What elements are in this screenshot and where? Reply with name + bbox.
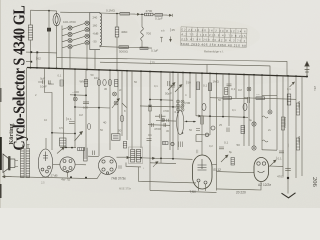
- wire stub y135: [196, 134, 210, 136]
- resistor R15: [123, 142, 126, 149]
- variable capacitor C6 (arrow): [168, 83, 175, 91]
- tube V2 (AF7) envelope: [38, 149, 52, 177]
- node dot: [71, 147, 73, 149]
- wire V2 top: [45, 138, 47, 149]
- node dot: [160, 158, 162, 160]
- svg-text:10n: 10n: [94, 76, 99, 80]
- svg-text:⎢50: ⎢50: [186, 81, 191, 85]
- capacitor C14: [227, 128, 229, 133]
- node dot: [74, 94, 76, 96]
- wire drop x142: [141, 14, 143, 27]
- node dot: [149, 99, 151, 101]
- wire T1 tops: [23, 145, 30, 149]
- wire rail x63 lower: [63, 69, 65, 148]
- svg-text:4700: 4700: [163, 109, 169, 113]
- switch contact bank 2 row c: [176, 108, 184, 111]
- resistor R6: [84, 80, 87, 87]
- wire rail x95: [94, 50, 96, 70]
- resistor R7: [97, 79, 100, 85]
- capacitor C20: [219, 147, 224, 149]
- arrow pointer down: [170, 37, 172, 42]
- wire rail x190: [189, 73, 191, 98]
- svg-text:160: 160: [93, 24, 98, 28]
- wire rail x86 lower: [85, 70, 87, 148]
- lamp E6: [171, 142, 174, 145]
- capacitor C7: [171, 85, 176, 87]
- pot P1 (oval): [202, 103, 206, 110]
- resistor R2: [145, 13, 154, 16]
- svg-text:MSE 375e: MSE 375e: [119, 187, 132, 191]
- svg-text:27dB: 27dB: [51, 174, 58, 178]
- wire line y116: [196, 116, 248, 118]
- mains block frame: [262, 95, 277, 97]
- tube V6 electrodes: [257, 162, 266, 173]
- wire rail x49: [48, 52, 50, 68]
- svg-text:8μ: 8μ: [229, 150, 232, 154]
- IF can outline: [129, 147, 143, 164]
- wire tube cathode down: [56, 26, 58, 58]
- svg-text:100-4700: 100-4700: [63, 20, 76, 24]
- resistor R18: [163, 142, 169, 145]
- capacitor C4: [108, 79, 111, 85]
- lamp E3: [268, 110, 272, 114]
- svg-text:2n: 2n: [119, 88, 122, 92]
- wire K1-K5: [72, 23, 85, 27]
- oval component right: [243, 103, 247, 110]
- wire tube to pack top: [60, 11, 90, 13]
- lamp E2: [205, 133, 209, 137]
- choke T2 winding: [84, 148, 88, 161]
- scan edge mark upper: [0, 88, 2, 102]
- wire rail x173: [172, 72, 174, 159]
- wire K4-K8: [72, 43, 85, 46]
- node dot avc: [141, 14, 143, 16]
- svg-text:206: 206: [311, 177, 318, 188]
- wire y172 to rectifier: [217, 172, 255, 173]
- table row lines: [181, 31, 247, 42]
- svg-text:30: 30: [166, 129, 169, 133]
- resistor R19: [87, 124, 90, 130]
- svg-text:5000Ω: 5000Ω: [119, 49, 129, 53]
- wire avc 4: [153, 14, 155, 16]
- wire avc 3: [140, 13, 145, 15]
- wire y157 to EL12: [130, 158, 193, 160]
- svg-text:0,1: 0,1: [203, 84, 208, 88]
- wire V6 right: [269, 165, 284, 167]
- diag arrow right end: [290, 82, 295, 87]
- wire rail x122: [121, 71, 123, 136]
- switch arm d: [62, 46, 67, 47]
- svg-text:40: 40: [103, 121, 107, 125]
- capacitor C17: [69, 122, 75, 124]
- capacitor C24 on ground rail: [285, 168, 291, 170]
- capacitor C12: [164, 123, 166, 127]
- wire rail x262: [261, 75, 263, 150]
- svg-text:24v: 24v: [313, 86, 317, 91]
- switch contact K3: [68, 39, 72, 43]
- node dot rail: [70, 176, 87, 178]
- wire rail x70: [69, 49, 71, 69]
- trimmer capacitor C1: [47, 28, 50, 31]
- wire line B (inner rail): [100, 62, 270, 75]
- node dot: [160, 99, 162, 101]
- svg-text:⎢0,1: ⎢0,1: [66, 117, 72, 121]
- wire rail x44: [45, 68, 53, 150]
- switch contact K2: [68, 32, 72, 36]
- wire V4 right with arrow: [117, 156, 130, 158]
- resistor R10: [208, 83, 211, 91]
- svg-text:4700: 4700: [277, 175, 284, 179]
- wire rail x254: [253, 75, 255, 146]
- svg-text:⎢0,1: ⎢0,1: [276, 157, 282, 161]
- svg-text:50: 50: [118, 129, 122, 133]
- resistor R17: [200, 116, 203, 124]
- svg-text:0,5: 0,5: [59, 126, 63, 130]
- wire elbow x196: [196, 135, 202, 142]
- wire rail x302: [301, 76, 303, 176]
- capacitor C18: [119, 165, 121, 169]
- wire V4 down-left: [97, 173, 101, 179]
- wire stub y99: [150, 99, 173, 102]
- wire rail x296: [295, 76, 297, 178]
- svg-text:5000: 5000: [297, 136, 301, 143]
- IF transformer T3 winding 2: [136, 150, 140, 163]
- wire rail x283: [282, 76, 284, 176]
- capacitor C23: [279, 151, 284, 153]
- resistor R11: [241, 126, 245, 134]
- wire rail x110: [109, 70, 111, 150]
- wire heater corner x150: [149, 163, 151, 190]
- oscillator switch contact K10: [113, 92, 117, 96]
- wire pack bottom line: [100, 47, 152, 49]
- speaker LS1 magnet: [9, 157, 15, 171]
- svg-text:700: 700: [146, 32, 151, 36]
- svg-text:0μF: 0μF: [40, 77, 45, 81]
- svg-text:Reihenfolge v. l.: Reihenfolge v. l.: [204, 49, 224, 53]
- svg-text:50: 50: [100, 128, 103, 132]
- svg-text:50: 50: [189, 128, 192, 132]
- small comp rail150: [149, 105, 152, 111]
- resistor R23 on pack line: [140, 47, 148, 49]
- wire rail x37: [36, 52, 38, 68]
- node dot: [74, 106, 76, 108]
- wire rail x244: [243, 75, 245, 147]
- wire line y106 mid: [140, 106, 184, 107]
- lamp on rail249: [247, 87, 251, 91]
- wire rail x62: [61, 48, 63, 69]
- switch arm b: [62, 34, 67, 36]
- IF box B1: [112, 134, 121, 140]
- svg-text:4W 7Ω: 4W 7Ω: [61, 178, 71, 182]
- svg-text:30: 30: [104, 87, 108, 91]
- wire rail x202: [201, 73, 203, 155]
- wire rail x170: [169, 72, 171, 150]
- scan edge line left: [0, 0, 2, 208]
- wire rail x210: [209, 73, 211, 135]
- wire V6 bottom: [217, 182, 262, 191]
- node dot: [74, 133, 76, 135]
- svg-text:0,1: 0,1: [154, 84, 158, 88]
- wire avc 5: [163, 14, 168, 16]
- paper noise texture: [0, 0, 1, 1]
- node dot: [65, 147, 67, 149]
- svg-text:0,1: 0,1: [231, 87, 236, 91]
- band switch S1 arm rail: [61, 26, 63, 48]
- pilot lamp E4: [252, 122, 256, 126]
- wire rail x141: [140, 71, 142, 148]
- capacitor C11: [152, 123, 154, 127]
- wire into V4: [88, 155, 99, 157]
- coil L1 (antenna choke): [28, 25, 32, 40]
- svg-text:0,1μF: 0,1μF: [155, 17, 163, 21]
- svg-text:0,1: 0,1: [287, 87, 291, 91]
- node dot: [243, 116, 245, 118]
- node dot avc2: [116, 13, 118, 15]
- main HT bus: [27, 68, 307, 77]
- svg-text:4700: 4700: [146, 9, 153, 13]
- tube V4 socket circle: [99, 157, 117, 175]
- small box component: [60, 80, 63, 86]
- table frame: [180, 27, 247, 48]
- switch contact bank 2 row b: [176, 104, 184, 107]
- coil pack L2 bumps: [100, 13, 102, 48]
- switch contact K8: [85, 41, 89, 45]
- table column lines: [186, 27, 241, 43]
- switch contact K9: [161, 118, 165, 122]
- wire rail x117 upper: [116, 14, 118, 28]
- svg-text:0,1: 0,1: [58, 74, 62, 78]
- coil pack L2 body: [90, 13, 100, 50]
- node dot: [209, 115, 211, 117]
- capacitor C27: [179, 142, 183, 148]
- svg-text:50: 50: [218, 98, 221, 102]
- wire T1 bottoms: [23, 176, 29, 178]
- svg-text:⎢25: ⎢25: [150, 61, 155, 65]
- switch arm a: [62, 28, 67, 30]
- node pin: [177, 112, 179, 114]
- variable arrow volume: [57, 147, 65, 154]
- capacitor C16: [93, 151, 95, 156]
- resistor R21: [296, 103, 299, 115]
- tube V3 socket circle: [60, 157, 75, 172]
- svg-text:AZ 12/Ze: AZ 12/Ze: [258, 183, 271, 187]
- ground symbol: [282, 193, 296, 198]
- wire y133 stub: [52, 132, 75, 135]
- capacitor C13: [120, 115, 124, 122]
- switch wiper arrow: [112, 99, 120, 109]
- arrow on y116: [197, 115, 201, 117]
- svg-text:30Ω: 30Ω: [48, 82, 54, 86]
- arrow on y157: [152, 157, 155, 159]
- tube V3 pins: [63, 160, 72, 173]
- wire avc 2: [130, 13, 136, 15]
- switch contact K4: [68, 45, 72, 49]
- switch contact K5: [85, 21, 89, 25]
- arrow tap A2: [167, 14, 172, 17]
- diag tap: [153, 162, 158, 168]
- wire rail x277: [276, 76, 278, 151]
- resistor R22: [296, 138, 299, 150]
- wire stub y147: [60, 146, 76, 148]
- svg-text:0,1: 0,1: [224, 141, 229, 145]
- node dot: [149, 105, 151, 107]
- capacitor C28: [48, 80, 50, 84]
- oscillator switch contact K11: [114, 101, 118, 105]
- wire V3 bottom stub: [67, 172, 69, 177]
- resistor R9: [196, 82, 199, 90]
- node J1: [48, 10, 50, 12]
- arrow bottom left: [3, 176, 12, 178]
- node dot: [98, 107, 100, 109]
- wire stub y95: [70, 94, 87, 97]
- node dot: [172, 106, 174, 108]
- switch arm c: [62, 40, 67, 42]
- variable arrow C21: [221, 155, 228, 162]
- svg-text:-6dB: -6dB: [93, 32, 99, 36]
- wire bottom rail left: [4, 177, 97, 179]
- resistor R3: [155, 14, 163, 17]
- capacitor C29: [168, 81, 170, 86]
- svg-text:⎢25: ⎢25: [170, 28, 175, 32]
- capacitor C5: [83, 102, 89, 104]
- switch contact K7: [85, 34, 89, 38]
- node dot: [30, 61, 32, 63]
- heater winding sign 2: [262, 140, 268, 142]
- svg-text:WN: WN: [80, 80, 85, 84]
- wire tube to rail: [56, 11, 58, 14]
- node dot bus end: [306, 76, 308, 78]
- wire heater line: [150, 190, 217, 192]
- wire rail x183: [182, 73, 184, 107]
- tube V4 pins: [102, 160, 113, 174]
- wire K3-K7: [72, 36, 85, 40]
- wire rail x31: [30, 52, 32, 67]
- variable arrow C22: [270, 160, 277, 167]
- resistor R12: [256, 97, 265, 100]
- wire rail x236: [235, 74, 237, 98]
- arrow tap A1: [135, 13, 140, 15]
- wire rail x99: [98, 70, 100, 156]
- svg-text:20 220: 20 220: [236, 191, 246, 195]
- scan edge mark lower: [0, 184, 2, 198]
- svg-text:10nF: 10nF: [40, 85, 47, 89]
- tube V1 (indicator): [53, 13, 60, 25]
- capacitor C15: [248, 97, 250, 103]
- wire y121 right: [185, 120, 197, 122]
- wire rail x26: [26, 68, 28, 148]
- tube V5 (EL12) envelope: [193, 155, 213, 189]
- wire avc 1: [100, 12, 120, 15]
- svg-text:0,1: 0,1: [148, 133, 152, 137]
- capacitor C26: [196, 129, 200, 131]
- wire rail x118: [117, 71, 119, 135]
- wire antenna rail down: [30, 10, 32, 25]
- resistor R8: [115, 80, 118, 87]
- svg-text:50pF: 50pF: [165, 92, 172, 96]
- svg-text:50000Ω: 50000Ω: [283, 117, 287, 128]
- wire below L3: [141, 41, 143, 48]
- tube V6 (AZ12) envelope: [254, 158, 269, 182]
- svg-text:4700: 4700: [154, 127, 161, 131]
- svg-text:0,1MΩ: 0,1MΩ: [106, 9, 116, 13]
- capacitor C3: [103, 79, 106, 85]
- node dot: [193, 121, 195, 123]
- oscillator coil oval: [177, 111, 184, 135]
- resistor R13: [287, 94, 291, 105]
- capacitor C19: [147, 139, 152, 141]
- switch contact K6: [85, 28, 89, 32]
- wire rail x288 (ground rail): [287, 76, 289, 194]
- antenna arrow at bus end: [305, 62, 310, 77]
- svg-text:10: 10: [44, 118, 47, 122]
- wire stub y62: [26, 61, 31, 63]
- wire rail x216: [216, 74, 218, 191]
- variable arrow pot: [75, 132, 83, 142]
- node dot: [186, 121, 188, 123]
- speaker LS1 cone: [3, 154, 9, 173]
- wire below C1: [48, 31, 50, 52]
- wire top rail: [31, 9, 57, 12]
- coil L3 (wavy): [141, 27, 144, 41]
- lamp symbol on rail75: [73, 97, 77, 101]
- capacitor C25: [167, 119, 169, 122]
- svg-text:4MΩ: 4MΩ: [121, 30, 128, 34]
- wire rail x178: [177, 72, 179, 150]
- bus junction dots: [30, 67, 297, 77]
- wire line y98 left: [210, 98, 248, 99]
- svg-text:⌢⌢: ⌢⌢: [256, 92, 260, 96]
- wire line y52: [26, 51, 57, 54]
- wire stub y150 right: [262, 149, 277, 151]
- svg-text:4μ: 4μ: [249, 118, 252, 122]
- resistor R16: [231, 158, 234, 166]
- wire speaker down: [3, 173, 5, 177]
- svg-text:0,1μF: 0,1μF: [151, 49, 158, 53]
- svg-text:⎢⎢: ⎢⎢: [196, 150, 199, 154]
- scattered value labels: [35, 73, 291, 154]
- wire V5 cathode: [199, 182, 206, 191]
- svg-text:50: 50: [134, 80, 137, 84]
- node dot: [51, 132, 53, 134]
- node dot: [172, 158, 174, 160]
- node dot: [85, 94, 87, 96]
- svg-text:a b: a b: [161, 29, 165, 33]
- svg-text:0,5M: 0,5M: [184, 101, 191, 105]
- wire line A (screen rail): [57, 58, 288, 76]
- wire line y107: [75, 107, 110, 108]
- switch contact bank 2 row a: [176, 100, 184, 103]
- svg-text:7AB 37/3e: 7AB 37/3e: [111, 177, 126, 181]
- node dot: [140, 157, 142, 159]
- box filter F1: [60, 138, 67, 146]
- wire speaker to T1: [15, 161, 18, 167]
- svg-text:25: 25: [219, 123, 222, 127]
- wire V2 down: [43, 176, 49, 177]
- svg-text:2,5: 2,5: [41, 181, 45, 185]
- node pin: [182, 132, 184, 134]
- node dot: [30, 51, 32, 53]
- node dot: [222, 116, 224, 118]
- wire grid return elbow: [139, 167, 197, 183]
- wire rail x223: [222, 74, 224, 117]
- wire rail x249: [248, 75, 250, 146]
- wire rail x196: [195, 73, 197, 116]
- svg-text:50: 50: [237, 143, 241, 147]
- wire EL12 right: [212, 164, 217, 166]
- variable capacitor C8 (arrow): [175, 85, 182, 93]
- lamp E1: [211, 126, 215, 130]
- resistor R14: [78, 148, 85, 151]
